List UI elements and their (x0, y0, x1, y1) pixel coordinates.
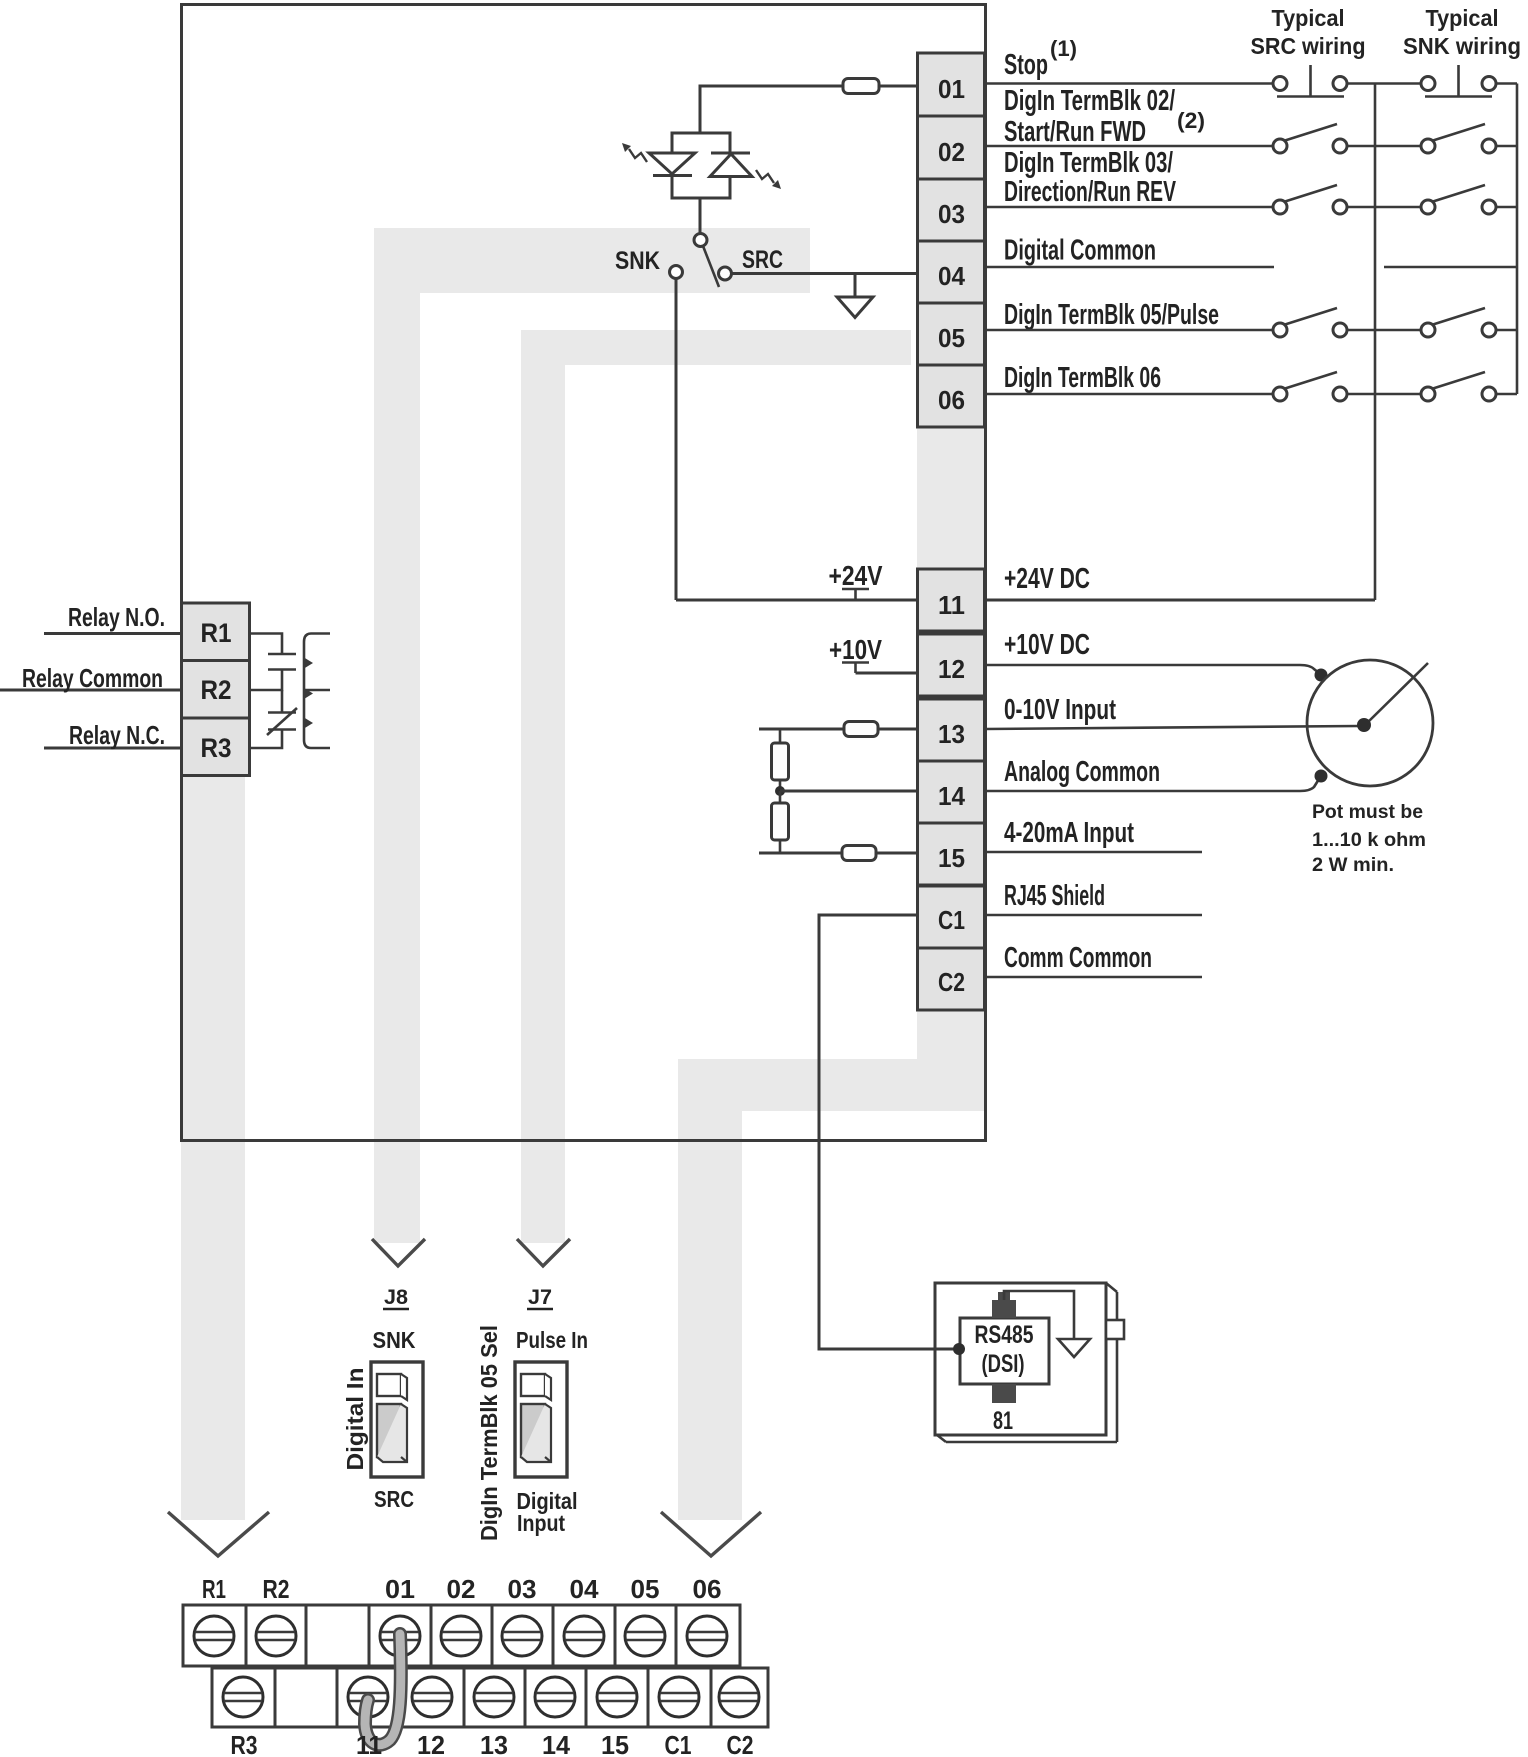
wire: Relay N.O. lead (44, 632, 181, 635)
svg-text:01: 01 (385, 1574, 415, 1604)
screw terminal 03 (502, 1616, 542, 1656)
wire: resistor to terminal 01 (879, 85, 917, 88)
wire: 0-10V input to pot wiper (985, 726, 1359, 729)
screw terminal 05 (625, 1616, 665, 1656)
resistor divider upper (772, 729, 789, 791)
potentiometer (1307, 660, 1433, 786)
terminal block cell 03 (918, 179, 985, 241)
wire: terminal 02 row (985, 145, 1273, 148)
svg-text:C1: C1 (938, 905, 965, 935)
svg-text:Pulse In: Pulse In (516, 1327, 588, 1353)
SNK common rail (1516, 84, 1519, 395)
wire: SNK 03 to SNK rail (1496, 206, 1517, 209)
wire: SNK 02 to SNK rail (1496, 145, 1517, 148)
wire: RS485 pin to ground (1004, 1291, 1074, 1339)
ground symbol at RS485 (1058, 1339, 1090, 1357)
svg-text:+10V DC: +10V DC (1004, 629, 1090, 661)
resistor (4-20mA input, terminal 15) (842, 846, 876, 861)
svg-text:Relay N.C.: Relay N.C. (69, 720, 165, 750)
screw terminal 14 (535, 1677, 575, 1717)
switch: SNK start/run FWD (1421, 124, 1496, 153)
terminal block cell 12 (918, 634, 985, 696)
wire: digital common row (SNK side) (1384, 266, 1517, 269)
wire: Relay Common lead (0, 689, 181, 692)
jumper wire from screw 01 to screw 11 (365, 1634, 401, 1745)
label J7 (527, 1286, 553, 1309)
svg-text:DigIn TermBlk 05 Sel: DigIn TermBlk 05 Sel (476, 1325, 502, 1541)
wire: analog common to pot low end (985, 779, 1319, 791)
wire: SNK 05 to SNK rail (1496, 329, 1517, 332)
svg-text:R1: R1 (202, 1574, 226, 1604)
terminal block cell 02 (918, 116, 985, 179)
terminal block cell 04 (918, 241, 985, 303)
svg-text:02: 02 (447, 1574, 476, 1604)
svg-text:0-10V Input: 0-10V Input (1004, 694, 1116, 726)
wire: RJ45 shield row (985, 914, 1202, 917)
svg-text:C2: C2 (938, 967, 965, 997)
screw terminal C1 (659, 1677, 699, 1717)
svg-text:SNK: SNK (373, 1327, 416, 1353)
SRC +24V rail (1374, 84, 1377, 601)
svg-text:R3: R3 (231, 1730, 258, 1757)
wire: +24V DC to SRC rail (985, 599, 1375, 602)
svg-text:15: 15 (601, 1730, 629, 1757)
svg-text:06: 06 (938, 385, 965, 415)
terminal block cell C1 (918, 886, 985, 948)
svg-text:13: 13 (938, 719, 965, 749)
svg-text:12: 12 (938, 654, 965, 684)
terminal strip background (917, 53, 985, 1111)
switch: SNK digin 06 (1421, 372, 1496, 401)
terminal block cell 05 (918, 303, 985, 365)
wire: +10V flag to terminal 12 (856, 672, 918, 675)
wire: Relay N.C. lead (44, 747, 181, 750)
svg-text:SRC: SRC (742, 246, 783, 274)
wire: SNK stop to SNK rail (1496, 82, 1517, 85)
screw terminal 15 (597, 1677, 637, 1717)
screw terminal 11 (348, 1677, 388, 1717)
svg-text:+24V DC: +24V DC (1004, 563, 1090, 595)
label Typical SRC wiring (1251, 5, 1366, 59)
wire: digital common row (SRC side) (985, 266, 1274, 269)
svg-text:81: 81 (993, 1407, 1013, 1435)
screw terminal C2 (719, 1677, 759, 1717)
wire: +24V to terminal 11 (676, 599, 917, 602)
svg-text:+24V: +24V (829, 560, 883, 591)
svg-text:SRC: SRC (374, 1486, 414, 1512)
wire: 4-20mA input row (985, 851, 1202, 854)
svg-text:+10V: +10V (829, 634, 882, 665)
+24V power flag (829, 560, 883, 600)
svg-text:R2: R2 (201, 675, 232, 705)
terminal block cell 13 (918, 699, 985, 761)
svg-text:SNK wiring: SNK wiring (1403, 33, 1521, 59)
relay terminal cell R2 (182, 661, 250, 719)
terminal block cell 06 (918, 365, 985, 427)
label Digital Input (J7 down position) (517, 1488, 578, 1536)
svg-text:R3: R3 (201, 733, 232, 763)
svg-text:DigIn TermBlk 02/: DigIn TermBlk 02/ (1004, 85, 1175, 117)
terminal block cell 01 (918, 53, 985, 116)
switch: SRC digin 06 (1273, 372, 1347, 401)
wire: +10V DC to pot high end (985, 665, 1319, 673)
svg-text:2 W min.: 2 W min. (1312, 855, 1394, 876)
svg-text:C2: C2 (727, 1730, 754, 1757)
node: pot high end (1315, 669, 1328, 682)
node: divider junction (775, 786, 785, 796)
svg-text:J7: J7 (528, 1286, 552, 1309)
wire: SNK 06 to SNK rail (1496, 393, 1517, 396)
terminal block cell C2 (918, 948, 985, 1010)
wire: SRC 05 to SNK column (1347, 329, 1421, 332)
svg-text:4-20mA Input: 4-20mA Input (1004, 817, 1134, 849)
svg-text:DigIn TermBlk 06: DigIn TermBlk 06 (1004, 362, 1161, 394)
relay terminal cell R1 (182, 603, 250, 661)
wire: LED to SNK/SRC select switch (699, 198, 702, 234)
relay contact N.C. (between R2 and R3) (249, 690, 297, 748)
screw terminal 01 (380, 1616, 420, 1656)
svg-text:05: 05 (938, 323, 965, 353)
svg-text:R1: R1 (201, 618, 232, 648)
svg-text:(DSI): (DSI) (982, 1350, 1025, 1378)
svg-text:Comm Common: Comm Common (1004, 942, 1152, 974)
switch: SRC digin 05 (1273, 308, 1347, 337)
resistor (stop input, terminal 01) (843, 79, 879, 94)
wire: terminal 01 row (stop) (985, 82, 1273, 85)
svg-text:14: 14 (542, 1730, 571, 1757)
svg-text:Pot must be: Pot must be (1312, 802, 1423, 823)
svg-text:Digital Common: Digital Common (1004, 235, 1156, 267)
svg-text:R2: R2 (263, 1574, 290, 1604)
wire: divider junction to terminal 14 (780, 790, 917, 793)
wire: 4-20mA input stub to resistor (759, 852, 842, 855)
node: RS485 connection (953, 1343, 965, 1355)
svg-text:RS485: RS485 (975, 1321, 1034, 1349)
switch: SRC start/run FWD (1273, 124, 1347, 153)
wire: SNK contact down to +24V rail (675, 279, 678, 601)
switch: SNK digin 05 (1421, 308, 1496, 337)
terminal block cell 14 (918, 761, 985, 823)
label Typical SNK wiring (1403, 5, 1521, 59)
relay contact N.O. (between R1 and R2) (249, 634, 296, 691)
svg-text:14: 14 (938, 781, 966, 811)
svg-text:11: 11 (356, 1730, 382, 1757)
switch: SNK stop pushbutton (1421, 65, 1496, 97)
svg-text:Digital In: Digital In (342, 1368, 368, 1471)
svg-text:02: 02 (938, 137, 965, 167)
wire: SRC contact to terminal 04 (731, 272, 917, 275)
lower screw terminal row (212, 1668, 768, 1727)
svg-text:Analog Common: Analog Common (1004, 756, 1160, 788)
svg-text:03: 03 (938, 199, 965, 229)
resistor divider lower (772, 791, 789, 853)
svg-text:15: 15 (938, 843, 965, 873)
svg-text:SRC wiring: SRC wiring (1251, 33, 1366, 59)
svg-text:13: 13 (480, 1730, 508, 1757)
svg-text:Start/Run FWD: Start/Run FWD (1004, 116, 1146, 148)
LED indicator (bidirectional input LED) (622, 133, 781, 198)
wire: resistor to terminal 15 (876, 852, 917, 855)
switch: SRC direction/run REV (1273, 185, 1347, 214)
screw terminal R1 (194, 1616, 234, 1656)
svg-text:01: 01 (938, 74, 965, 104)
svg-text:Relay N.O.: Relay N.O. (68, 602, 165, 632)
svg-text:06: 06 (693, 1574, 722, 1604)
wire: resistor to terminal 13 (878, 728, 917, 731)
svg-text:Stop: Stop (1004, 49, 1048, 81)
wire: terminal C1 down to RS485 module (819, 915, 954, 1349)
svg-text:04: 04 (570, 1574, 600, 1604)
label DigIn TermBlk 03 / Direction/Run REV (1004, 147, 1176, 208)
wire: comm common row (985, 976, 1202, 979)
svg-text:1...10 k ohm: 1...10 k ohm (1312, 830, 1426, 851)
wire: terminal 05 row (985, 329, 1273, 332)
svg-text:04: 04 (938, 261, 966, 291)
svg-text:DigIn TermBlk 05/Pulse: DigIn TermBlk 05/Pulse (1004, 299, 1219, 331)
screw terminal 04 (564, 1616, 604, 1656)
svg-text:12: 12 (417, 1730, 445, 1757)
ground symbol at terminal 04 (837, 274, 873, 318)
svg-text:DigIn TermBlk 03/: DigIn TermBlk 03/ (1004, 147, 1173, 179)
label DigIn TermBlk 02 / Start/Run FWD (1004, 85, 1205, 148)
svg-text:05: 05 (631, 1574, 660, 1604)
label pot requirement (1312, 802, 1426, 876)
svg-text:RJ45 Shield: RJ45 Shield (1004, 880, 1105, 912)
jumper J8 switch (371, 1362, 423, 1477)
upper screw terminal row (183, 1605, 740, 1666)
wire: SRC 06 to SNK column (1347, 393, 1421, 396)
terminal block cell 15 (918, 823, 985, 885)
svg-text:SNK: SNK (615, 247, 660, 275)
gray arrow band: comm terminals down to lower screw block (661, 1009, 980, 1556)
label J8 (383, 1286, 409, 1309)
jumper J7 switch (515, 1362, 567, 1477)
wire: 0-10V input stub to resistor (759, 728, 844, 731)
svg-text:J8: J8 (384, 1286, 408, 1309)
node: pot wiper (1357, 718, 1371, 732)
wire: SRC 03 to SNK column (1347, 206, 1421, 209)
svg-text:(2): (2) (1177, 108, 1205, 133)
svg-text:C1: C1 (665, 1730, 692, 1757)
relay terminal cell R3 (182, 718, 250, 776)
screw terminal 06 (687, 1616, 727, 1656)
svg-text:11: 11 (938, 590, 965, 620)
SNK/SRC select switch (670, 234, 732, 288)
svg-text:Direction/Run REV: Direction/Run REV (1004, 176, 1176, 208)
svg-text:Typical: Typical (1272, 5, 1345, 31)
svg-text:03: 03 (508, 1574, 537, 1604)
switch: SNK direction/run REV (1421, 185, 1496, 214)
wire: terminal 06 row (985, 393, 1273, 396)
svg-text:(1): (1) (1050, 36, 1077, 61)
screw terminal R3 (223, 1677, 263, 1717)
screw terminal R2 (256, 1616, 296, 1656)
wire: terminal 03 row (985, 206, 1273, 209)
gray arrow band: terminal 05 row down to jumper J7 (517, 330, 911, 1266)
svg-text:Typical: Typical (1426, 5, 1499, 31)
screw terminal 02 (441, 1616, 481, 1656)
enclosure border (182, 5, 986, 1141)
switch: SRC stop pushbutton (1273, 65, 1347, 97)
wire: SRC stop to SNK column (1347, 82, 1421, 85)
wire: SRC 02 to SNK column (1347, 145, 1421, 148)
screw terminal 13 (474, 1677, 514, 1717)
RS485 (DSI) module (935, 1283, 1124, 1442)
+10V power flag (829, 634, 882, 673)
terminal block cell 11 (918, 569, 985, 631)
gray arrow band: relay terminals down to lower screw block (168, 776, 269, 1556)
relay actuator bracket (304, 634, 330, 749)
wire: stop circuit from terminal 01 (700, 86, 843, 133)
node: pot low end (1315, 770, 1328, 783)
gray arrow band: SNK/SRC select circuit down to jumper J8 (372, 228, 810, 1266)
resistor (0-10V input, terminal 13) (844, 722, 878, 737)
screw terminal 12 (412, 1677, 452, 1717)
svg-text:Relay Common: Relay Common (22, 663, 163, 693)
svg-text:Input: Input (517, 1510, 565, 1536)
